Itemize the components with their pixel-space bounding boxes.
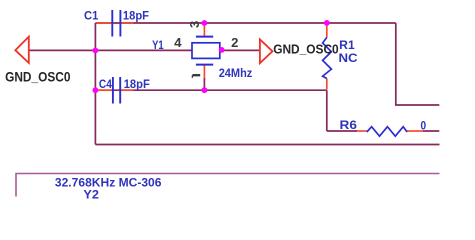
pin number 1 (rotated)	[193, 74, 201, 76]
wire: left vertical bus x=95.4	[94, 23, 96, 145]
pin lead C1 right (orange)	[122, 22, 134, 24]
wire: stub continuation to C4 row	[203, 78, 205, 90]
svg-text:GND_OSC0: GND_OSC0	[273, 42, 339, 57]
port GND_OSC0 right (triangle)	[260, 39, 273, 63]
port GND_OSC0 left (triangle)	[15, 37, 28, 63]
svg-text:C4: C4	[99, 77, 112, 91]
svg-text:3: 3	[187, 21, 202, 28]
svg-text:4: 4	[174, 35, 182, 50]
wire: vertical drop from R1 bottom to R6 row	[326, 90, 328, 131]
junction dot at (95.4,50.4)	[93, 48, 99, 54]
wire: Y2 block outline corner	[16, 174, 440, 197]
wire: C4 row y=90.2	[95, 89, 326, 91]
wire: port to junction middle row	[29, 49, 96, 51]
junction dot crystal pin2	[219, 47, 225, 53]
pin lead R6 right (orange)	[407, 130, 423, 132]
wire: R6 row left segment	[327, 130, 357, 132]
pin lead C4 left (orange)	[96, 89, 112, 91]
pin lead R1 top (orange)	[326, 23, 328, 37]
pin lead R6 left (orange)	[357, 130, 367, 132]
svg-text:Y2: Y2	[83, 187, 99, 201]
svg-text:Y1: Y1	[152, 38, 164, 52]
pin lead R1 bottom (orange)	[326, 79, 328, 90]
crystal Y1 body	[192, 43, 220, 59]
svg-text:C1: C1	[84, 9, 99, 23]
svg-text:18pF: 18pF	[124, 77, 150, 91]
junction dot crystal pin3 top	[202, 20, 208, 26]
capacitor C4 plates	[113, 77, 120, 104]
junction dot crystal pin1 bottom	[202, 87, 208, 93]
svg-text:32.768KHz MC-306: 32.768KHz MC-306	[55, 176, 162, 190]
wire: crystal pin2 to right port	[220, 49, 260, 51]
pin lead C1 left (orange)	[96, 22, 111, 24]
resistor R6 zigzag	[367, 127, 407, 137]
wire: R6 row right segment	[423, 130, 439, 132]
junction dot R1 top	[324, 20, 330, 26]
wire: bottom long horizontal y=144.5	[95, 144, 439, 146]
svg-text:GND_OSC0: GND_OSC0	[5, 70, 70, 85]
svg-text:2: 2	[231, 35, 238, 50]
svg-text:R6: R6	[340, 118, 358, 132]
wire: top-right L down	[396, 23, 440, 105]
wire: junction to crystal pin4	[95, 49, 192, 51]
svg-text:NC: NC	[339, 51, 358, 65]
crystal Y1 top electrode plate	[196, 36, 213, 38]
svg-text:0: 0	[421, 119, 427, 133]
svg-text:18pF: 18pF	[123, 9, 149, 23]
pin lead C4 right (orange)	[121, 89, 133, 91]
pin stub crystal pin1 (orange)	[203, 65, 205, 78]
crystal Y1 bottom electrode plate	[196, 64, 213, 66]
pin stub crystal pin3 (orange)	[203, 23, 205, 37]
capacitor C1 plates	[112, 10, 120, 37]
svg-text:24Mhz: 24Mhz	[219, 66, 253, 80]
wire: top horizontal from left vertical to top-right corner	[95, 22, 395, 24]
resistor R1 zigzag	[323, 37, 332, 78]
junction dot at (95.4,90.2)	[93, 87, 99, 93]
